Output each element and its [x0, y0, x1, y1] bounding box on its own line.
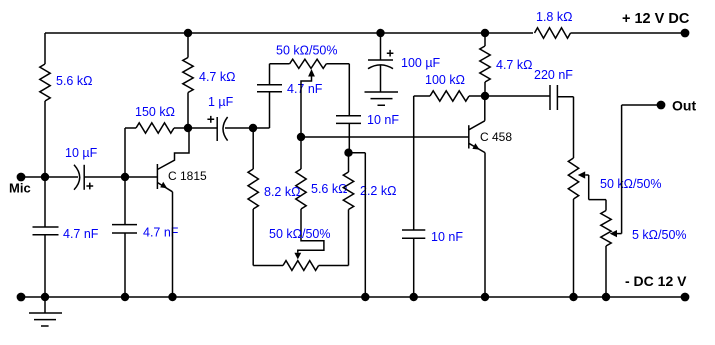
node mic junction	[41, 173, 49, 181]
svg-text:50 kΩ/50%: 50 kΩ/50%	[600, 177, 661, 191]
VR4 wiper wire	[617, 233, 622, 235]
svg-text:C 458: C 458	[480, 130, 512, 144]
potentiometer VR4 5k track	[601, 211, 611, 247]
node after C2	[121, 173, 129, 181]
wire VR1 right lead	[326, 64, 349, 116]
capacitor C9 220 nF	[550, 85, 557, 110]
node Q2 collector junction	[481, 92, 489, 100]
resistor R5 5.6 k&#937;	[296, 169, 306, 209]
wire C6 bottom lead	[348, 123, 350, 152]
wire to R7	[414, 95, 430, 97]
wire VR3 bottom lead	[573, 199, 575, 297]
node R3/R2 junction	[184, 124, 192, 132]
wire top rail right section	[571, 32, 686, 34]
node C6/R6 junction	[344, 149, 352, 157]
VR4 wiper arrow	[610, 230, 617, 237]
svg-text:5 kΩ/50%: 5 kΩ/50%	[632, 228, 687, 242]
wire C5 branch lower	[253, 92, 270, 128]
terminal +12V dot	[681, 29, 690, 38]
node feedback junction A	[249, 124, 257, 132]
svg-text:5.6 kΩ: 5.6 kΩ	[56, 74, 92, 88]
wire junction to ground drop	[349, 153, 366, 297]
wire Out line	[622, 105, 661, 234]
wire R8 top lead	[484, 33, 486, 46]
svg-text:50 kΩ/50%: 50 kΩ/50%	[269, 227, 330, 241]
potentiometer VR1 50k track	[290, 59, 327, 68]
resistor R9 1.8 k&#937; (top rail)	[535, 28, 571, 38]
plus sign C2	[86, 183, 93, 190]
wire R6 top lead	[348, 153, 350, 172]
resistor R3 150 k&#937;	[136, 123, 174, 133]
svg-text:5.6 kΩ: 5.6 kΩ	[311, 182, 347, 196]
wire VR2 right lead	[319, 210, 349, 266]
capacitor C5 4.7 nF	[257, 85, 282, 92]
junction bottom rail x=573.5	[569, 293, 577, 301]
svg-text:100 kΩ: 100 kΩ	[425, 73, 465, 87]
resistor R7 100 k&#937;	[430, 91, 469, 101]
svg-text:220 nF: 220 nF	[534, 68, 573, 82]
wire C5 branch upper	[270, 64, 290, 85]
VR2 wiper arrow	[294, 253, 301, 260]
plus sign C4	[207, 116, 214, 123]
capacitor C3 4.7 nF	[124, 177, 126, 225]
wire C8 bottom lead	[413, 238, 415, 297]
wire C9 to VR3	[557, 97, 573, 158]
svg-text:4.7 kΩ: 4.7 kΩ	[496, 58, 532, 72]
junction bottom rail x=172.5	[168, 293, 176, 301]
wire left branch top	[44, 33, 46, 64]
svg-text:4.7 nF: 4.7 nF	[143, 226, 179, 240]
svg-text:4.7 nF: 4.7 nF	[63, 227, 99, 241]
svg-text:1 µF: 1 µF	[208, 95, 234, 109]
wire VR2 left lead	[253, 209, 283, 266]
wire Q1 emitter down	[172, 192, 174, 297]
node top rail / R2	[184, 29, 192, 37]
svg-text:10 nF: 10 nF	[367, 113, 399, 127]
junction bottom rail x=365.3	[361, 293, 369, 301]
ground symbol left	[44, 297, 46, 313]
junction bottom rail x=45	[41, 293, 49, 301]
node top rail / C7	[376, 29, 384, 37]
wire Q2 emitter down	[484, 153, 486, 297]
potentiometer VR3 50k track	[568, 158, 578, 199]
svg-text:C 1815: C 1815	[168, 169, 207, 183]
junction bottom rail x=413.7	[410, 293, 418, 301]
wire feedback vertical	[413, 96, 415, 230]
capacitor C7 100 uF electrolytic	[380, 33, 382, 60]
resistor R6 2.2 k&#937;	[343, 172, 353, 210]
svg-text:4.7 nF: 4.7 nF	[287, 82, 323, 96]
wire 4.7k-left top lead	[187, 33, 189, 58]
node wiper junction	[297, 133, 305, 141]
wire VR4 bottom lead	[605, 246, 607, 297]
capacitor C2 10 uF electrolytic	[45, 176, 78, 178]
capacitor C8 10 nF	[402, 230, 425, 238]
capacitor C6 10 nF	[336, 116, 361, 124]
resistor R4 8.2 k&#937;	[248, 169, 258, 209]
resistor R1 5.6 k&#937;	[40, 64, 50, 101]
svg-text:50 kΩ/50%: 50 kΩ/50%	[276, 44, 337, 58]
resistor R2 4.7 k&#937;	[183, 58, 193, 93]
wire 150k right lead	[174, 127, 188, 129]
svg-text:- DC 12 V: - DC 12 V	[625, 273, 687, 289]
wire R5 top lead	[300, 137, 302, 169]
svg-text:Out: Out	[672, 98, 696, 114]
svg-text:150 kΩ: 150 kΩ	[135, 105, 175, 119]
svg-text:10 µF: 10 µF	[65, 146, 98, 160]
capacitor C1 4.7 nF	[33, 227, 59, 235]
node top rail / R8	[481, 29, 489, 37]
terminal Mic dot	[17, 173, 26, 182]
wire mic input	[21, 176, 45, 178]
wire Q1 base	[125, 176, 157, 178]
svg-text:10 nF: 10 nF	[431, 230, 463, 244]
ground symbol mid	[365, 92, 399, 105]
VR3 wiper arrow	[578, 171, 585, 178]
wire R8 bottom lead	[484, 82, 486, 96]
transistor Q1 C1815 body	[156, 164, 158, 189]
potentiometer VR2 50k track	[283, 261, 319, 271]
svg-text:Mic: Mic	[9, 181, 31, 196]
VR3 wiper wire	[585, 175, 606, 211]
wire R7 right lead	[469, 95, 485, 97]
wire 150k left lead	[125, 128, 136, 177]
svg-text:4.7 kΩ: 4.7 kΩ	[199, 70, 235, 84]
terminal -12V dot	[681, 293, 690, 302]
VR1 wiper arrow	[308, 69, 315, 77]
transistor Q2 C458 body	[468, 125, 470, 148]
wire R5 to VR2 wiper s-bend	[298, 209, 324, 253]
svg-text:8.2 kΩ: 8.2 kΩ	[264, 185, 300, 199]
emitter arrow Q1	[160, 182, 167, 189]
wire top rail left section	[45, 32, 533, 34]
svg-text:1.8 kΩ: 1.8 kΩ	[536, 10, 572, 24]
wire left branch mid	[44, 101, 46, 227]
svg-text:100 µF: 100 µF	[401, 56, 441, 70]
VR1 wiper wire	[301, 77, 312, 138]
plus sign C7	[387, 50, 394, 57]
wire left branch bottom	[44, 235, 46, 297]
terminal Out dot	[657, 101, 666, 110]
wire mid rail to Q2 base	[301, 136, 469, 138]
svg-text:+ 12 V DC: + 12 V DC	[622, 11, 690, 27]
wire to C9	[485, 95, 550, 97]
junction bottom rail x=125	[121, 293, 129, 301]
wire 4.7k-left bottom lead	[187, 93, 189, 129]
emitter arrow Q2	[472, 143, 479, 149]
junction bottom rail x=606	[602, 293, 610, 301]
capacitor C4 1 uF	[188, 127, 217, 129]
wire bottom ground rail	[21, 296, 685, 298]
resistor R8 4.7 k&#937;	[480, 46, 490, 82]
terminal ground-left dot	[17, 293, 26, 302]
junction bottom rail x=485	[481, 293, 489, 301]
wire R4 top lead	[252, 128, 254, 169]
